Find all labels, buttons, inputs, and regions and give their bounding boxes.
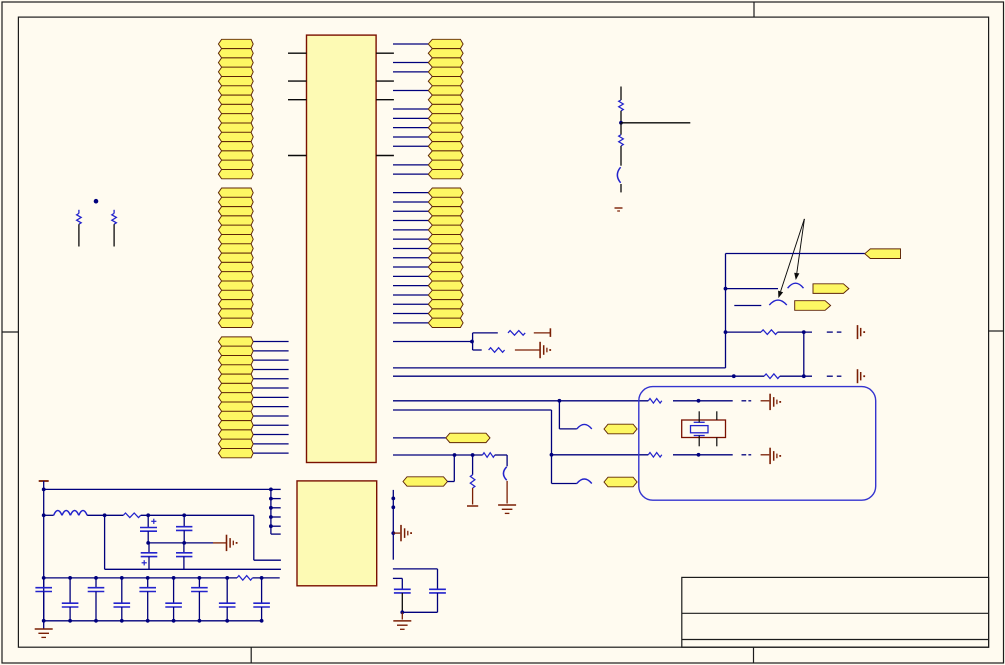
wire to port L3-11 [253,434,288,436]
wire U1 row [393,341,472,343]
port P6 [446,433,490,442]
capacitor C2 [503,467,506,480]
frame tick left [2,331,18,333]
node dot [724,330,728,334]
U1 right pin 2 [376,80,394,82]
node dot [802,374,806,378]
port L2-13 [218,300,253,309]
node dot [182,541,186,545]
wire divider top [620,87,622,101]
port L1-10 [218,123,253,132]
node dot [471,453,475,457]
port R2-15 [428,318,463,327]
port L1-13 [218,151,253,160]
node dot [391,497,395,501]
wire to port L3-1 [253,341,288,343]
node dot [732,374,736,378]
port R2-14 [428,309,463,318]
U2 pin stub 6 [271,533,281,535]
resistor R10 [470,455,475,505]
port P3 [795,301,831,311]
port R1-13 [428,151,463,160]
resistor R5 [761,330,778,335]
port R2-13 [428,300,463,309]
wire module row2 [552,454,649,456]
port P4 [604,424,637,434]
port L1-11 [218,132,253,141]
ground main [35,629,53,637]
port L1-15 [218,170,253,179]
wire [673,400,733,402]
ground small [858,369,866,383]
U1 left pin 3 [288,99,307,101]
wire U1 to bus riser [393,367,726,369]
resistor R2 [112,210,117,247]
wire to port R1-1 [393,43,428,45]
wire [473,332,498,334]
wire U1 row [393,454,483,456]
ground [227,535,238,551]
annotation arrow 1 [794,219,804,280]
capacitor C6 [176,543,192,569]
frame tick top [753,2,755,17]
port L2-12 [218,290,253,299]
port L1-2 [218,49,253,58]
port R1-10 [428,123,463,132]
ground [401,525,412,541]
wire [448,455,455,482]
wire [778,331,812,333]
wire dashed [742,400,752,402]
wire to port L3-8 [253,406,288,408]
U2 pin tie [270,489,272,534]
port L3-7 [218,393,253,402]
U1 left pin 2 [288,80,307,82]
wire to port L3-4 [253,368,288,370]
port L3-13 [218,449,253,458]
wire to port L3-6 [253,387,288,389]
port L1-12 [218,142,253,151]
wire riser [725,254,727,368]
wire to port R2-14 [393,313,428,315]
port R1-4 [428,67,463,76]
wire to port R1-11 [393,136,428,138]
shield module outline [639,387,876,501]
port L3-11 [218,430,253,439]
capacitor C4 [176,515,192,543]
wire to port R2-11 [393,285,428,287]
wire to port L3-13 [253,452,288,454]
rail top [44,577,280,579]
port L2-3 [218,207,253,216]
wire [104,515,106,569]
port L2-14 [218,309,253,318]
port R1-2 [428,49,463,58]
wire [402,611,437,613]
annotation arrow 2 [778,219,804,298]
resistor R7 [508,331,525,336]
port L3-4 [218,365,253,374]
port R1-5 [428,77,463,86]
wire [620,111,622,123]
wire to port R1-15 [393,173,428,175]
wire to port R2-9 [393,266,428,268]
resistor R9 [483,453,495,458]
wire [87,514,123,516]
wire [726,331,762,333]
wire [559,401,576,429]
power rail bar [39,480,49,482]
wire to port R2-13 [393,303,428,305]
wire mid rail [105,568,281,570]
wire to port L3-10 [253,424,288,426]
port P1 [865,249,901,259]
wire [393,569,438,589]
port L1-9 [218,114,253,123]
frame tick bottom 1 [250,647,252,663]
node dot [391,505,395,509]
capacitor CB3 [165,576,182,623]
wire [141,514,254,516]
port R2-10 [428,272,463,281]
port L3-9 [218,411,253,420]
port L1-14 [218,160,253,169]
wire to port R1-14 [393,164,428,166]
wire to port R2-4 [393,220,428,222]
capacitor CT4 [191,576,208,623]
node dot [103,513,107,517]
port L2-15 [218,318,253,327]
resistor R3 [619,100,624,111]
resistor R12 [648,453,662,458]
inductor L1 [54,511,88,516]
wire [473,349,482,351]
port L1-5 [218,77,253,86]
port R2-4 [428,216,463,225]
wire to port R1-12 [393,145,428,147]
wire to port L3-3 [253,359,288,361]
port R1-7 [428,95,463,104]
node dot [42,619,46,623]
port P2 [813,284,849,294]
wire to port L3-5 [253,378,288,380]
wire to port R1-6 [393,89,428,91]
capacitor CB5 [253,576,270,623]
U1 left pin 1 [288,52,307,54]
U2 pin stub 5 [269,524,281,528]
port R1-3 [428,58,463,67]
wire [515,349,540,351]
wire power vertical [43,481,45,629]
port L2-5 [218,225,253,234]
terminal bar [549,328,551,337]
wire to port R2-6 [393,238,428,240]
IC U1 body [307,35,377,462]
wire [734,305,761,307]
capacitor C5 [141,543,158,569]
wire [44,514,54,516]
wire [495,455,507,466]
node dot [182,513,186,517]
wire [254,515,281,560]
port R2-5 [428,225,463,234]
wire [551,410,553,484]
wire [506,481,508,504]
wire to port P1 [726,253,865,255]
port L3-8 [218,402,253,411]
wire to U2 pins [44,488,271,490]
port L2-1 [218,188,253,197]
port L1-8 [218,104,253,113]
port R2-8 [428,253,463,262]
node dot A [94,199,99,204]
wire to port L3-2 [253,350,288,352]
port R1-6 [428,86,463,95]
resistor R4 [619,123,624,146]
inductor FB3 [577,424,592,429]
capacitor C8 [429,589,446,612]
wire to port R2-8 [393,257,428,259]
port L2-6 [218,235,253,244]
node dot [391,531,395,535]
wire dashed [742,454,752,456]
wire [552,483,577,485]
port R2-7 [428,244,463,253]
port L3-2 [218,346,253,355]
wire U1 row [393,437,446,439]
wire dashed [827,375,842,377]
port L3-10 [218,421,253,430]
port L1-3 [218,58,253,67]
node dot [42,513,46,517]
wire dashed [827,331,842,333]
node dot [558,399,562,403]
port L3-1 [218,337,253,346]
wire [620,184,622,192]
wire to port R1-3 [393,62,428,64]
wire to port R2-2 [393,201,428,203]
capacitor C7 [394,589,411,612]
resistor R6 [764,374,780,379]
port R1-11 [428,132,463,141]
node dot [724,287,728,291]
wire to port R2-15 [393,322,428,324]
wire [673,454,733,456]
node dot [146,541,150,545]
node dot [802,330,806,334]
port L2-9 [218,262,253,271]
wire divider tap [621,122,690,124]
wire U1 to module row1 [393,400,648,402]
U2 pin stub 1 [269,488,281,492]
node dot [42,576,46,580]
frame tick right [989,330,1004,332]
wire U1 row [393,375,764,377]
resistor R14 [237,576,253,581]
capacitor CT2 [88,576,105,623]
port L3-12 [218,439,253,448]
wire to port R2-7 [393,247,428,249]
wire [761,400,770,402]
port R2-6 [428,235,463,244]
port R1-1 [428,39,463,48]
U2 right tie [392,490,394,560]
wire [534,332,551,334]
frame tick bottom 2 [753,647,755,663]
U1 right pin 4 [376,155,394,157]
title block [682,577,989,647]
ground [540,342,551,358]
U1 right pin 1 [376,52,394,54]
port L2-8 [218,253,253,262]
port P7 [403,477,448,486]
ground small [858,325,866,339]
ground [770,448,781,464]
port R2-11 [428,281,463,290]
port R1-8 [428,104,463,113]
node dot B [619,121,623,125]
node dot [697,453,701,457]
port L1-4 [218,67,253,76]
port R1-15 [428,170,463,179]
port L1-6 [218,86,253,95]
node dot [146,513,150,517]
ground [770,394,781,410]
port L2-10 [218,272,253,281]
port L1-7 [218,95,253,104]
wire cross link [803,332,805,376]
capacitor CT3 [139,576,156,623]
wire to port R2-5 [393,229,428,231]
port L3-5 [218,374,253,383]
ground [393,621,411,629]
resistor R11 [648,399,662,404]
wire [401,612,403,619]
capacitor CB2 [114,576,131,623]
ground mini [615,208,623,211]
resistor R8 [489,348,505,353]
rail bottom [44,620,262,622]
U1 left pin 4 [288,155,307,157]
wire U1 row [393,409,552,411]
terminal bar [467,505,478,507]
wire to port R2-12 [393,294,428,296]
U2 pin stub 4 [269,515,281,519]
capacitor CB1 [62,576,79,623]
wire to port L3-12 [253,443,288,445]
port R2-1 [428,188,463,197]
port R2-2 [428,197,463,206]
port R2-12 [428,290,463,299]
port L2-7 [218,244,253,253]
node dot [470,340,474,344]
port L2-4 [218,216,253,225]
port R1-9 [428,114,463,123]
resistor R13 [123,513,140,518]
port R2-9 [428,262,463,271]
wire to port R2-10 [393,275,428,277]
wire mid tap [148,542,226,544]
U2 pin stub 2 [269,497,281,501]
wire to port R1-4 [393,71,428,73]
wire to port L3-9 [253,415,288,417]
wire [761,454,770,456]
wire to port R1-9 [393,117,428,119]
wire to port R1-8 [393,108,428,110]
port P5 [604,477,637,487]
crystal Y1 [682,411,726,446]
ground [498,505,516,513]
capacitor CT1 [35,578,52,621]
port L3-6 [218,383,253,392]
wire [620,146,622,166]
port L3-3 [218,356,253,365]
wire branch [472,333,474,350]
capacitor CB4 [219,576,236,623]
node dot [42,488,46,492]
port L2-11 [218,281,253,290]
port R1-14 [428,160,463,169]
inductor FB1 [788,283,804,288]
capacitor C1 [617,167,620,183]
U2 pin stub 3 [269,506,281,510]
wire to port R2-3 [393,210,428,212]
capacitor C3 [140,515,157,543]
node dot [453,453,457,457]
inductor FB4 [577,479,592,484]
wire [726,288,779,290]
U1 right pin 3 [376,99,394,101]
wire [393,532,400,534]
wire to port R1-10 [393,127,428,129]
inductor FB2 [769,300,787,305]
node dot [697,399,701,403]
wire [780,375,812,377]
port R1-12 [428,142,463,151]
node dot [550,453,554,457]
resistor R1 [77,210,82,247]
port L2-2 [218,197,253,206]
port L1-1 [218,39,253,48]
IC U2 body [297,481,377,586]
port R2-3 [428,207,463,216]
wire [393,578,402,589]
wire to port R2-1 [393,192,428,194]
node dot [400,610,404,614]
wire to port L3-7 [253,396,288,398]
